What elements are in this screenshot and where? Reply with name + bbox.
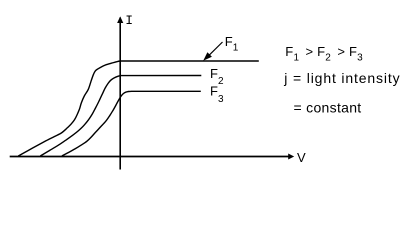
- svg-text:V: V: [297, 150, 306, 165]
- axis I arrowhead: [117, 16, 123, 23]
- axis V (horizontal): [10, 156, 290, 158]
- axis I (vertical): [119, 18, 121, 170]
- pointer arrow to curve F1: [209, 42, 223, 56]
- curve F2: [40, 76, 201, 157]
- curve F1: [18, 61, 258, 156]
- svg-text:= constant: = constant: [294, 100, 362, 116]
- svg-text:j = light intensity: j = light intensity: [283, 70, 400, 86]
- svg-text:F1: F1: [225, 34, 239, 54]
- curve F3: [62, 91, 201, 156]
- svg-text:I: I: [125, 13, 133, 28]
- svg-text:F1 > F2 > F3: F1 > F2 > F3: [285, 44, 363, 64]
- axis V arrowhead: [288, 154, 294, 160]
